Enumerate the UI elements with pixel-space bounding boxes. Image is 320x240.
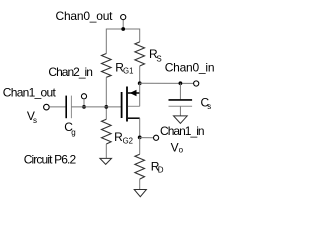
capacitor Cg bbox=[66, 96, 71, 119]
resistor RS bbox=[135, 42, 145, 66]
terminal Vo Chan1_in bbox=[154, 135, 159, 140]
svg-text:Chan0_out: Chan0_out bbox=[56, 9, 114, 23]
resistor RG1 bbox=[102, 54, 112, 78]
label Cg bbox=[64, 120, 75, 137]
terminal Chan1_out bbox=[44, 104, 50, 110]
terminal Chan0_out bbox=[121, 15, 126, 20]
svg-text:V: V bbox=[171, 140, 179, 154]
label RG2 bbox=[114, 130, 133, 145]
label RS bbox=[149, 47, 162, 63]
wire left chain middle bbox=[105, 77, 107, 119]
svg-text:Chan0_in: Chan0_in bbox=[165, 60, 215, 74]
resistor RD bbox=[135, 154, 145, 179]
wire Cs stem bottom bbox=[179, 106, 181, 116]
transistor M1 gate bar bbox=[121, 92, 123, 118]
node source rail junction bbox=[138, 81, 142, 85]
capacitor Cs bbox=[169, 100, 193, 106]
wire input left bbox=[49, 106, 66, 108]
node top rail junction bbox=[121, 27, 125, 31]
svg-text:Chan1_in: Chan1_in bbox=[160, 124, 205, 138]
ground below RD bbox=[134, 190, 146, 197]
terminal Chan2_in bbox=[81, 94, 86, 99]
resistor RG2 bbox=[102, 119, 112, 144]
svg-text:G1: G1 bbox=[123, 67, 133, 76]
wire Chan2_in stem bbox=[83, 99, 85, 107]
label Vs bbox=[27, 109, 37, 125]
transistor M1 source lead with arrow bbox=[128, 90, 140, 96]
wire output stub bbox=[140, 137, 154, 139]
label RD bbox=[151, 159, 164, 174]
node drain junction bbox=[138, 136, 142, 140]
wire top stem from Chan0_out terminal to top rail bbox=[122, 20, 124, 29]
svg-text:s: s bbox=[207, 102, 211, 111]
wire RD top bbox=[139, 137, 141, 154]
svg-text:Chan1_out: Chan1_out bbox=[3, 85, 57, 99]
label RG1 bbox=[115, 60, 133, 75]
transistor M1 channel bar bbox=[126, 87, 128, 122]
svg-text:Chan2_in: Chan2_in bbox=[48, 65, 93, 79]
wire drain vertical bbox=[139, 118, 141, 137]
transistor M1 body lead bbox=[128, 105, 140, 107]
node gate junction bbox=[104, 105, 108, 109]
wire right chain bottom bbox=[139, 66, 141, 83]
terminal Chan0_in bbox=[194, 81, 199, 86]
wire Chan0_in rail bbox=[140, 82, 194, 84]
svg-text:Circuit P6.2: Circuit P6.2 bbox=[24, 153, 77, 167]
svg-text:G2: G2 bbox=[123, 137, 133, 146]
svg-text:S: S bbox=[156, 54, 161, 63]
node Cs junction bbox=[179, 81, 183, 85]
wire RD bottom bbox=[139, 179, 141, 189]
wire Cs stem top bbox=[179, 83, 181, 99]
ground below Cs bbox=[174, 116, 188, 124]
wire left chain top bbox=[105, 29, 107, 54]
svg-text:g: g bbox=[71, 128, 75, 137]
wire source vertical bbox=[139, 83, 141, 106]
wire top rail bbox=[106, 28, 139, 30]
wire gate bbox=[71, 106, 121, 108]
wire left chain bottom bbox=[105, 144, 107, 158]
label Vo bbox=[171, 140, 184, 154]
wire right chain top bbox=[139, 29, 141, 42]
node Chan2_in junction bbox=[82, 105, 86, 109]
svg-text:s: s bbox=[33, 116, 37, 125]
transistor M1 drain lead bbox=[128, 117, 140, 119]
svg-text:o: o bbox=[179, 146, 184, 155]
label Cs bbox=[201, 95, 212, 111]
svg-text:D: D bbox=[158, 166, 164, 175]
ground below RG2 bbox=[100, 158, 112, 164]
